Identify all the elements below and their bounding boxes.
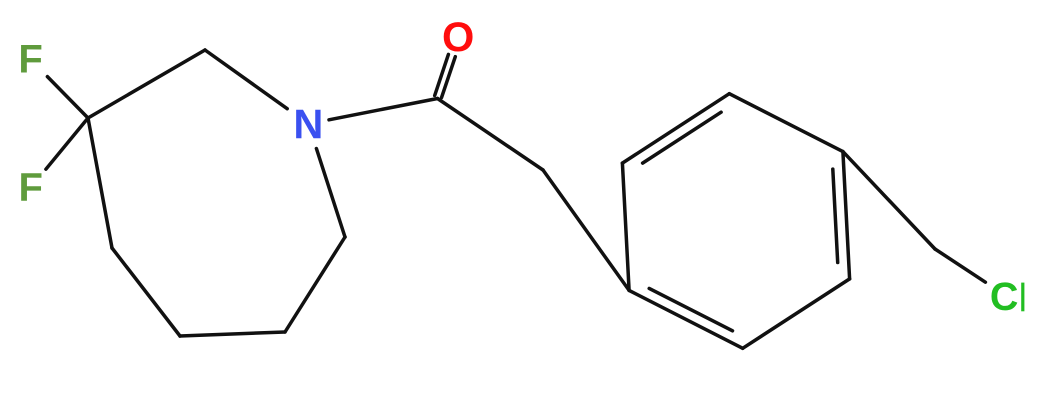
inner aromatic line C6'-C1 bbox=[649, 288, 732, 330]
svg-text:O: O bbox=[442, 13, 474, 60]
bond N-C7 (ring) bbox=[316, 149, 345, 238]
bond CH2-C1(phenyl) bbox=[543, 170, 629, 290]
svg-text:C: C bbox=[990, 275, 1019, 319]
bond C4-C3 (ring) bbox=[88, 50, 205, 118]
bond C6-C5 (ring) bbox=[180, 332, 285, 336]
svg-text:N: N bbox=[293, 100, 323, 147]
bond C-F2 bbox=[46, 118, 88, 169]
inner aromatic line C2'-C3' bbox=[643, 112, 722, 163]
bond C4'-CH2 bbox=[843, 152, 935, 249]
svg-text:F: F bbox=[18, 166, 42, 210]
bond C6'-C1 (benzene) bbox=[629, 290, 743, 348]
inner aromatic line C4'-C5' bbox=[833, 169, 838, 262]
double bond C=O line 1 bbox=[435, 54, 449, 95]
svg-text:F: F bbox=[18, 37, 42, 81]
bond CH2-Cl bbox=[935, 249, 985, 282]
bond C2'-C3' (benzene) bbox=[622, 94, 729, 163]
bond C5'-C6' (benzene) bbox=[743, 279, 850, 348]
bond C-F1 bbox=[47, 77, 88, 118]
bond C3-N (ring) bbox=[205, 50, 287, 109]
bond N-C(=O) bbox=[329, 99, 438, 120]
bond C(=O)-CH2 bbox=[438, 99, 544, 171]
bond C1-C2' (benzene) bbox=[622, 163, 629, 290]
bond C4'-C5' (benzene) bbox=[843, 152, 850, 279]
atom label Cl letter l bbox=[1021, 283, 1024, 312]
bond C7-C6 (ring) bbox=[285, 237, 345, 332]
bond C3'-C4' (benzene) bbox=[729, 94, 843, 152]
bond C5-C4a (ring) bbox=[112, 248, 180, 336]
double bond C=O line 2 bbox=[442, 57, 456, 98]
bond C4a-C4 (ring) bbox=[88, 118, 112, 248]
